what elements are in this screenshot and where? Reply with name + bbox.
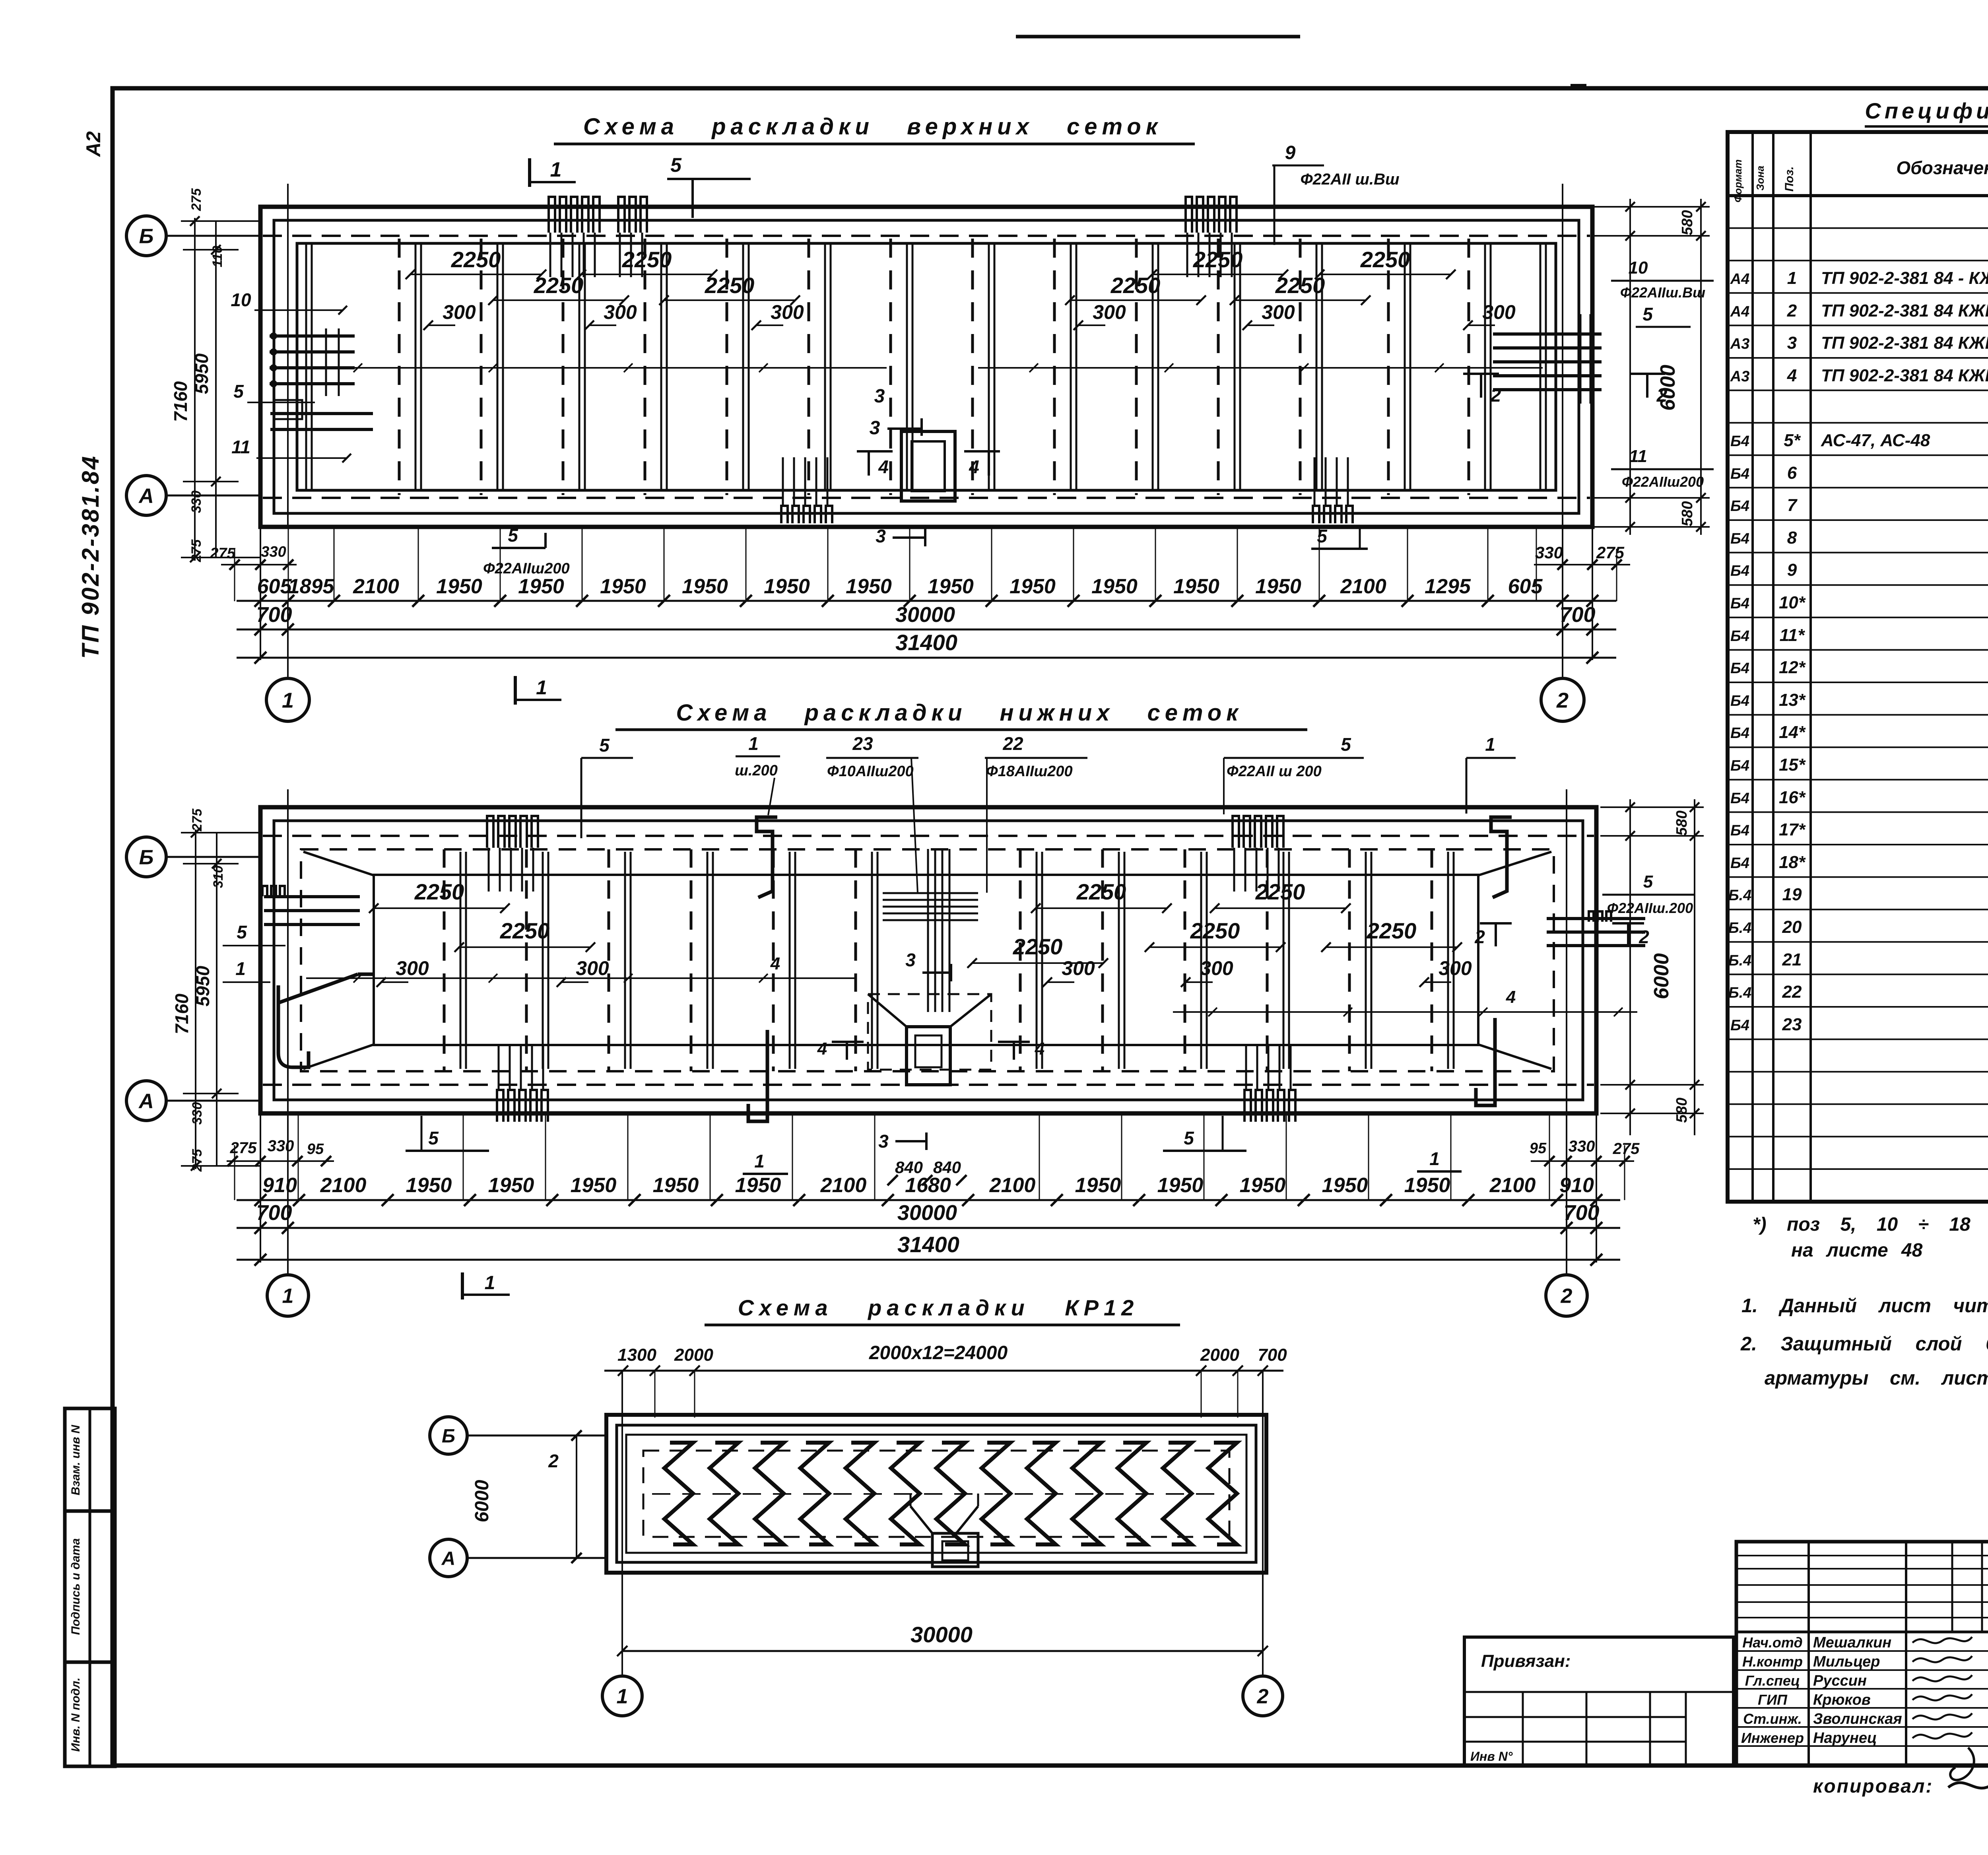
svg-text:330: 330 [189, 491, 204, 513]
drawing 1 section mark 3 [870, 386, 922, 439]
svg-text:300: 300 [604, 301, 637, 323]
svg-text:2: 2 [1474, 927, 1485, 947]
drawing 3 axis line 2 (vertical) [1262, 1371, 1264, 1675]
svg-text:Ф18АIIш200: Ф18АIIш200 [986, 763, 1073, 780]
svg-text:10: 10 [231, 289, 251, 310]
svg-text:3: 3 [905, 950, 916, 970]
svg-text:Гл.спец: Гл.спец [1745, 1672, 1800, 1689]
svg-text:14*: 14* [1779, 723, 1806, 742]
svg-text:16*: 16* [1779, 788, 1806, 807]
specification table grid [1728, 132, 1988, 1202]
svg-text:5: 5 [1317, 526, 1328, 546]
specification table column headers [1732, 156, 1988, 202]
svg-text:275: 275 [189, 188, 204, 212]
drawing 1 left end bar cluster (КР11 frames) [270, 243, 373, 490]
svg-text:11: 11 [1629, 447, 1647, 466]
drawing 2 section marks 4 (T-marks) [817, 1039, 1044, 1060]
svg-text:1: 1 [485, 1272, 495, 1294]
svg-text:95: 95 [1530, 1140, 1547, 1157]
svg-text:Б.4: Б.4 [1728, 920, 1752, 936]
svg-text:1680: 1680 [905, 1174, 951, 1197]
drawing 2 section flag 1 (left, between drawings) [515, 676, 561, 705]
drawing 1 axis circle Б [126, 216, 261, 256]
svg-text:Ф22АII ш.Вш: Ф22АII ш.Вш [1300, 171, 1399, 188]
drawing 2 axis bubble 1 (bottom) [267, 1275, 309, 1316]
svg-text:Зона: Зона [1754, 166, 1766, 191]
svg-text:1950: 1950 [1075, 1174, 1121, 1197]
svg-text:22: 22 [1782, 982, 1802, 1002]
drawing 2 bottom section mark 5 (left) [406, 1116, 489, 1151]
svg-text:17*: 17* [1779, 820, 1806, 839]
drawing 2 bottom bent bar hook (right) [1476, 1018, 1495, 1105]
svg-text:700: 700 [256, 603, 292, 627]
svg-text:11*: 11* [1780, 625, 1806, 645]
svg-text:300: 300 [1439, 957, 1472, 979]
drawing 2 section marks 2 (right) [1474, 923, 1649, 947]
svg-text:330: 330 [261, 544, 286, 560]
drawing 1 axis bubble 1 (bottom) [266, 678, 309, 721]
svg-text:Б4: Б4 [1730, 790, 1749, 807]
svg-text:4: 4 [878, 456, 889, 477]
svg-text:10*: 10* [1779, 593, 1806, 612]
drawing 1 top rebar combs [549, 197, 1237, 277]
svg-text:Формат: Формат [1732, 159, 1744, 203]
svg-text:9: 9 [1787, 560, 1797, 580]
drawing 1 title: Схема раскладки верхних сеток [554, 114, 1195, 144]
svg-text:310: 310 [211, 866, 226, 888]
svg-text:1895: 1895 [288, 575, 335, 598]
svg-text:700: 700 [256, 1201, 292, 1225]
svg-text:1950: 1950 [735, 1174, 781, 1197]
drawing 2 left leader labels 5 / 1 [223, 922, 285, 946]
bottom annotations [1813, 1771, 1988, 1797]
drawing 3 central pit [911, 1494, 978, 1567]
drawing 3 top dimension row 1300/2000/2000x12=24000/2000/700 [604, 1342, 1287, 1418]
svg-text:18*: 18* [1779, 853, 1806, 872]
svg-text:4: 4 [770, 954, 780, 973]
svg-text:4: 4 [1787, 366, 1797, 385]
svg-text:275: 275 [190, 808, 205, 832]
svg-text:Мешалкин: Мешалкин [1813, 1634, 1891, 1651]
specification table rows [1728, 200, 1988, 1132]
svg-text:Б: Б [139, 225, 154, 248]
drawing 2 overall dimension 31400 [237, 1232, 1620, 1266]
drawing 1 section flag 1 (top left) [530, 158, 576, 187]
svg-text:300: 300 [1262, 301, 1295, 323]
drawing 2 axis circle А [126, 1081, 261, 1121]
drawing 2 dimension labels 2250 [369, 879, 1462, 968]
drawing 2 dimension row (panel widths) [237, 1174, 1620, 1206]
svg-text:5: 5 [1642, 304, 1653, 324]
svg-text:4: 4 [1506, 987, 1516, 1007]
svg-text:95: 95 [307, 1141, 324, 1158]
svg-text:Б.4: Б.4 [1728, 887, 1752, 904]
svg-text:5: 5 [233, 381, 244, 402]
svg-text:2250: 2250 [500, 918, 550, 943]
drawing 1 left vertical dimension chain 7160 / 5950 [170, 188, 260, 563]
drawing 2 callout 1 ш.200 [735, 733, 780, 815]
svg-text:Б4: Б4 [1730, 628, 1749, 645]
svg-text:275: 275 [1596, 543, 1625, 562]
svg-text:Зволинская: Зволинская [1813, 1711, 1902, 1727]
svg-text:1300: 1300 [617, 1345, 656, 1365]
drawing 2 axis circle Б [126, 837, 261, 877]
title block: revision/signature grid [1736, 1542, 1988, 1766]
drawing 3 frame plan outline [606, 1415, 1266, 1573]
svg-text:А: А [138, 485, 154, 508]
svg-text:Нарунец: Нарунец [1813, 1730, 1877, 1746]
svg-text:Б4: Б4 [1730, 433, 1749, 450]
drawing 2 central rebar cross cluster [883, 849, 978, 1012]
svg-text:11: 11 [231, 437, 250, 457]
svg-text:2: 2 [1490, 385, 1501, 406]
drawing 1 callout 9 Ф22АII (top right) [1272, 142, 1400, 245]
drawing 2 tank plan outline [260, 807, 1596, 1113]
svg-text:110: 110 [210, 246, 225, 267]
svg-text:1950: 1950 [571, 1174, 617, 1197]
svg-text:3: 3 [878, 1131, 889, 1152]
drawing 1 left leader labels 10 / 5 / 11 [231, 289, 347, 315]
svg-text:ГИП: ГИП [1758, 1692, 1788, 1708]
drawing 3 bottom dimension 30000 [617, 1622, 1268, 1656]
svg-text:700: 700 [1559, 603, 1595, 627]
svg-text:3: 3 [870, 418, 880, 439]
svg-text:19: 19 [1782, 885, 1802, 904]
svg-text:Схема раскладки верхних сет: Схема раскладки верхних сеток [583, 114, 1162, 140]
drawing 1 overall dimension 31400 [237, 630, 1616, 664]
drawing 1 axis line 1 (vertical) [287, 184, 289, 527]
svg-text:А: А [138, 1090, 154, 1113]
drawing 2 bottom rebar combs [497, 1046, 1295, 1122]
drawing 2 left diagonal bent bar [278, 974, 358, 1003]
svg-text:700: 700 [1258, 1345, 1287, 1365]
svg-text:5: 5 [1643, 872, 1653, 892]
svg-text:ТП 902-2-381.84: ТП 902-2-381.84 [77, 455, 104, 658]
svg-text:910: 910 [1559, 1174, 1594, 1197]
svg-text:Б4: Б4 [1730, 725, 1749, 742]
svg-text:2: 2 [1556, 688, 1569, 712]
svg-text:Мильцер: Мильцер [1813, 1653, 1880, 1670]
svg-text:330: 330 [268, 1137, 294, 1155]
svg-text:30000: 30000 [897, 1201, 957, 1225]
drawing 2 callout 5 Ф22АIIш200 [1224, 734, 1364, 814]
svg-text:2250: 2250 [1013, 934, 1063, 959]
svg-text:4: 4 [969, 456, 979, 477]
svg-text:1950: 1950 [1173, 575, 1219, 598]
drawing 2 dimension labels 300 [377, 957, 1472, 987]
left margin stamp boxes [65, 1408, 115, 1766]
svg-text:ТП 902-2-381 84 КЖИ- С3: ТП 902-2-381 84 КЖИ- С3 [1821, 333, 1988, 353]
svg-text:1: 1 [748, 733, 759, 754]
title block signatures [1741, 1634, 1974, 1780]
drawing 3 zigzag frames КР12 [664, 1443, 1237, 1544]
svg-text:Обозначение: Обозначение [1896, 157, 1988, 178]
svg-text:2250: 2250 [1076, 879, 1126, 904]
svg-text:ш.200: ш.200 [735, 762, 778, 779]
drawing 1 bottom section mark 5 Ф22АIIш200 [483, 525, 570, 577]
svg-text:Б4: Б4 [1730, 1017, 1749, 1034]
svg-text:А3: А3 [1730, 368, 1750, 385]
drawing 3 vertical dim 6000 [472, 1435, 577, 1558]
drawing 1 dimension row (panel widths) [237, 575, 1616, 607]
svg-text:Взам. инв N: Взам. инв N [69, 1424, 82, 1495]
svg-text:7160: 7160 [171, 993, 192, 1034]
svg-text:2250: 2250 [1360, 247, 1410, 272]
svg-text:8: 8 [1787, 528, 1797, 548]
footnote below table [1753, 1214, 1988, 1261]
svg-text:копировал:: копировал: [1813, 1776, 1933, 1797]
svg-text:605: 605 [1508, 575, 1543, 598]
svg-text:А: А [441, 1548, 456, 1569]
svg-text:7160: 7160 [170, 381, 191, 422]
svg-text:Руссин: Руссин [1813, 1672, 1867, 1689]
svg-text:2250: 2250 [1367, 918, 1417, 943]
svg-text:5: 5 [428, 1128, 439, 1148]
drawing 1 right callout 5 [1636, 304, 1691, 327]
svg-text:1: 1 [754, 1151, 765, 1171]
svg-text:2: 2 [1787, 301, 1797, 320]
svg-text:1950: 1950 [1010, 575, 1056, 598]
drawing 3 axis circle А [430, 1539, 606, 1577]
svg-text:А4: А4 [1730, 303, 1750, 320]
drawing 2 bottom bent bar hook (center-left) [748, 1030, 767, 1121]
svg-text:15*: 15* [1779, 755, 1806, 775]
drawing 1 callout 5 (top) [667, 154, 751, 218]
svg-text:1: 1 [282, 688, 294, 712]
svg-text:275: 275 [1613, 1140, 1640, 1158]
drawing 2 axis bubble 2 (bottom) [1546, 1275, 1587, 1316]
drawing 2 small dims 275 330 95 (left) [227, 1137, 334, 1166]
drawing 1 axis circle А [126, 476, 261, 515]
svg-text:2: 2 [1561, 1285, 1573, 1308]
drawing 2 bottom section mark 3 [878, 1131, 926, 1152]
drawing 2 top rebar combs [487, 816, 1283, 892]
svg-text:1. Данный лист читать совм: 1. Данный лист читать совместно с листом… [1741, 1295, 1988, 1317]
drawing 2 callout 23 Ф10АIIш200 [826, 733, 918, 893]
svg-text:5: 5 [1341, 734, 1351, 755]
svg-text:5950: 5950 [192, 965, 213, 1006]
svg-text:1950: 1950 [928, 575, 974, 598]
svg-text:3: 3 [874, 386, 885, 407]
drawing 1 small dims 275 330 (left) [210, 544, 297, 570]
svg-text:5: 5 [599, 735, 610, 756]
drawing 1 mesh panel division lines [399, 239, 1491, 495]
svg-text:300: 300 [1093, 301, 1126, 323]
drawing 2 left vertical dimension chain 7160 / 5950 [171, 808, 260, 1172]
notes 1 and 2 [1740, 1295, 1988, 1389]
drawing 2 section mark 3 (center) [905, 950, 951, 981]
svg-text:2100: 2100 [1340, 575, 1386, 598]
drawing 2 bent bar hooks (pos.1) [757, 817, 777, 897]
svg-text:А2: А2 [82, 131, 105, 157]
svg-text:3: 3 [876, 526, 886, 546]
svg-text:275: 275 [210, 545, 235, 562]
svg-text:2250: 2250 [1193, 247, 1243, 272]
svg-text:Б4: Б4 [1730, 660, 1749, 677]
svg-text:на листе 48: на листе 48 [1791, 1240, 1923, 1261]
drawing 1 right vertical dimension chain 580 / 6000 / 580 [1594, 199, 1710, 535]
svg-text:1950: 1950 [764, 575, 810, 598]
svg-text:5: 5 [1184, 1128, 1194, 1148]
svg-text:1: 1 [235, 958, 246, 979]
svg-text:Поз.: Поз. [1783, 166, 1796, 192]
svg-text:2100: 2100 [353, 575, 399, 598]
drawing 2 axis line 1 (vertical) [287, 789, 289, 1113]
svg-text:5: 5 [670, 154, 682, 176]
svg-text:30000: 30000 [911, 1622, 973, 1647]
svg-text:330: 330 [1569, 1138, 1595, 1155]
drawing 2 dimension row 700/30000/700 [237, 1201, 1620, 1234]
svg-text:910: 910 [262, 1174, 297, 1197]
svg-text:2250: 2250 [414, 879, 464, 904]
svg-text:ТП 902-2-381 84 - КЖИ- КР11: ТП 902-2-381 84 - КЖИ- КР11 [1821, 268, 1988, 288]
svg-text:Нач.отд: Нач.отд [1742, 1634, 1802, 1651]
svg-text:1950: 1950 [436, 575, 482, 598]
svg-text:Схема раскладки нижних сето: Схема раскладки нижних сеток [676, 700, 1242, 726]
drawing 1 bottom section mark 5 (right) [1311, 526, 1368, 549]
svg-text:Ст.инж.: Ст.инж. [1743, 1711, 1802, 1727]
svg-text:2000: 2000 [674, 1345, 713, 1365]
svg-text:580: 580 [1673, 1097, 1690, 1123]
svg-text:2250: 2250 [1110, 273, 1161, 298]
svg-text:1950: 1950 [600, 575, 646, 598]
svg-text:Б4: Б4 [1730, 563, 1749, 579]
svg-text:31400: 31400 [895, 630, 957, 655]
svg-text:Б4: Б4 [1730, 530, 1749, 547]
svg-text:2250: 2250 [534, 273, 584, 298]
svg-text:605: 605 [257, 575, 292, 598]
drawing 3 axis circle Б [430, 1417, 606, 1454]
svg-text:300: 300 [1482, 301, 1516, 323]
svg-text:Б: Б [442, 1426, 455, 1447]
drawing 2 dims 840 840 (center) [887, 1158, 967, 1185]
drawing 2 bottom section mark 5 (right) [1163, 1116, 1246, 1151]
specification table title [1865, 98, 1988, 126]
svg-text:31400: 31400 [897, 1232, 959, 1257]
svg-text:Б4: Б4 [1730, 498, 1749, 515]
drawing 2 pos.1 labels under hooks [743, 1151, 788, 1174]
svg-text:580: 580 [1673, 810, 1690, 835]
svg-text:300: 300 [396, 957, 429, 979]
svg-text:*) поз 5, 10 ÷ 18 смотреть: *) поз 5, 10 ÷ 18 смотреть ведомость сте… [1753, 1214, 1988, 1235]
drawing 2 small dims 95 330 275 (right) [1530, 1138, 1640, 1166]
svg-text:1: 1 [1787, 268, 1797, 288]
svg-text:20: 20 [1782, 917, 1802, 937]
svg-text:1950: 1950 [653, 1174, 699, 1197]
svg-text:1: 1 [1429, 1148, 1440, 1169]
drawing 2 centerline with 4 labels [306, 954, 1637, 1016]
svg-text:4: 4 [1035, 1039, 1044, 1059]
svg-text:2250: 2250 [622, 247, 672, 272]
svg-text:2100: 2100 [989, 1174, 1036, 1197]
svg-text:6000: 6000 [1656, 365, 1679, 411]
svg-text:Ф22АIIш200: Ф22АIIш200 [1622, 474, 1704, 490]
drawing 2 callout 22 Ф18АIIш200 [985, 733, 1087, 893]
svg-text:300: 300 [576, 957, 609, 979]
svg-text:12*: 12* [1779, 658, 1806, 677]
svg-text:580: 580 [1679, 501, 1696, 526]
svg-text:А4: А4 [1730, 271, 1750, 287]
svg-text:330: 330 [190, 1102, 205, 1125]
svg-text:Б4: Б4 [1730, 693, 1749, 709]
svg-text:1950: 1950 [488, 1174, 534, 1197]
svg-text:1950: 1950 [518, 575, 564, 598]
svg-text:1950: 1950 [406, 1174, 452, 1197]
drawing 1 dimension labels 300 [423, 301, 1516, 330]
svg-text:2000х12=24000: 2000х12=24000 [869, 1342, 1008, 1364]
svg-text:Инв. N подл.: Инв. N подл. [69, 1678, 82, 1752]
svg-text:1: 1 [536, 676, 547, 699]
svg-text:300: 300 [1200, 957, 1233, 979]
svg-text:275: 275 [190, 1149, 205, 1172]
drawing 2 left bar cluster with comb [262, 886, 360, 925]
svg-text:275: 275 [189, 539, 204, 563]
drawing 1 dimension labels 2250 (lower row) [488, 273, 1371, 305]
svg-text:300: 300 [1062, 957, 1095, 979]
svg-text:1950: 1950 [1091, 575, 1138, 598]
svg-text:2250: 2250 [451, 247, 501, 272]
drawing 3 axis bubble 2 [1243, 1676, 1283, 1716]
svg-text:2250: 2250 [1190, 918, 1240, 943]
svg-text:2000: 2000 [1200, 1345, 1239, 1365]
drawing 1 right callout 11 Ф22АIIш200 [1611, 447, 1714, 490]
svg-text:Б4: Б4 [1730, 822, 1749, 839]
svg-text:5: 5 [237, 922, 247, 942]
drawing 1 tank plan outline [260, 207, 1592, 527]
svg-text:Б.4: Б.4 [1728, 985, 1752, 1001]
drawing 2 right bar cluster Ф22 [1547, 911, 1645, 946]
svg-text:Б.4: Б.4 [1728, 952, 1752, 969]
drawing 2 title: Схема раскладки нижних сеток [615, 700, 1307, 730]
svg-text:5*: 5* [1784, 431, 1801, 450]
drawing 3 section flag 1 [462, 1272, 510, 1299]
svg-text:Б4: Б4 [1730, 758, 1749, 774]
svg-text:Н.контр: Н.контр [1742, 1653, 1803, 1670]
drawing 1 central opening (pit) [901, 431, 955, 501]
svg-text:700: 700 [1563, 1201, 1599, 1225]
svg-text:2: 2 [1257, 1685, 1269, 1708]
svg-text:1: 1 [1485, 734, 1495, 755]
drawing 1 dimension labels 2250 (upper row) [406, 247, 1456, 279]
drawing 2 mesh panel division lines [444, 849, 1454, 1071]
svg-text:1: 1 [550, 158, 562, 181]
drawing 1 bottom rebar combs [781, 457, 1353, 523]
drawing 2 left end bent bar hook [278, 985, 309, 1067]
svg-text:2100: 2100 [820, 1174, 867, 1197]
drawing 1 dimension row 700/30000/700 [237, 603, 1616, 635]
svg-text:ТП 902-2-381 84 КЖИ- КР12: ТП 902-2-381 84 КЖИ- КР12 [1821, 301, 1988, 320]
svg-text:2. Защитный слой бетона: 2. Защитный слой бетона для верхней и ни… [1740, 1333, 1988, 1355]
drawing 1 axis bubble 2 (bottom) [1541, 678, 1584, 721]
drawing 2 axis line 2 (vertical) [1566, 789, 1567, 1113]
svg-text:2100: 2100 [1489, 1174, 1536, 1197]
svg-text:21: 21 [1782, 950, 1802, 969]
svg-text:Б: Б [139, 846, 154, 869]
svg-text:1950: 1950 [1157, 1174, 1204, 1197]
svg-text:22: 22 [1002, 733, 1023, 754]
svg-text:9: 9 [1285, 142, 1296, 163]
svg-text:Ф22АIIш.Вш: Ф22АIIш.Вш [1620, 284, 1705, 301]
svg-text:275: 275 [230, 1139, 257, 1157]
svg-text:АС-47, АС-48: АС-47, АС-48 [1821, 431, 1930, 450]
drawing 2 callout 1 (top right) [1466, 734, 1516, 814]
svg-text:300: 300 [443, 301, 476, 323]
svg-text:Ф22АIIш200: Ф22АIIш200 [483, 560, 570, 577]
svg-text:1950: 1950 [1240, 1174, 1286, 1197]
svg-text:3: 3 [1787, 333, 1797, 353]
svg-text:6000: 6000 [1650, 953, 1673, 999]
binding box (Привязан) [1464, 1637, 1734, 1766]
